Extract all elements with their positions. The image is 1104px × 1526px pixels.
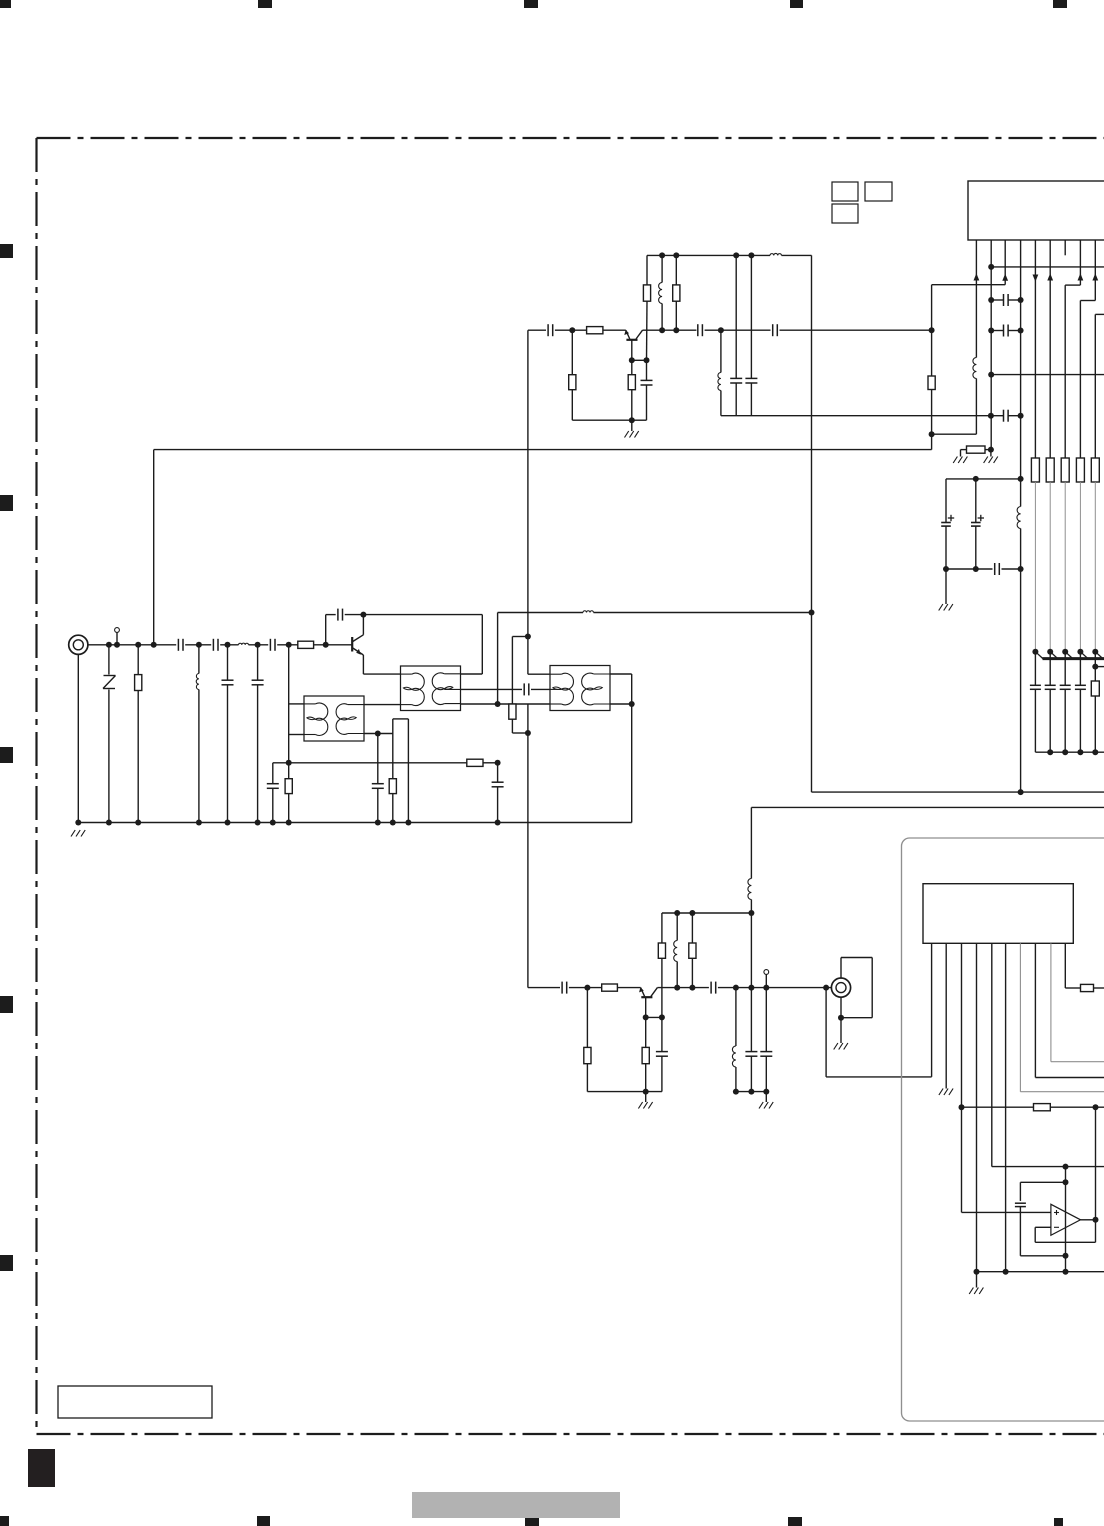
node: [405, 820, 411, 826]
node: [1063, 1253, 1069, 1259]
dash-dot page border left: [35, 138, 37, 1434]
wire cap return: [1035, 751, 1104, 753]
capacitor C18: [1003, 325, 1005, 337]
wire Q2 input: [528, 329, 546, 331]
varactor/trimmer cap: [1064, 652, 1066, 686]
wire riser: [497, 613, 499, 705]
node: [1018, 566, 1024, 572]
transformer T2: [401, 666, 461, 711]
IC IC1: [968, 181, 1104, 240]
node: [959, 1104, 965, 1110]
wire varactor feed: [1079, 482, 1081, 652]
wire varactor feed: [1034, 482, 1036, 652]
wire level line: [962, 1106, 1034, 1108]
resistor R20: [602, 984, 618, 991]
resistor R12: [967, 446, 986, 453]
wire T3 secondary bottom: [610, 703, 632, 705]
wire: [1050, 1106, 1104, 1108]
node: [390, 820, 396, 826]
pin 6 wire: [1049, 240, 1051, 458]
node: [733, 1089, 739, 1095]
test point stub: [765, 975, 767, 988]
bus entry: [1035, 652, 1043, 659]
node: [659, 1014, 665, 1020]
arrow: [1078, 273, 1084, 280]
node: [1018, 328, 1024, 334]
registration mark bottom 3: [525, 1516, 539, 1526]
node test point: [114, 642, 120, 648]
resistor R17: [1076, 458, 1084, 482]
ground: [945, 569, 947, 604]
wire: [345, 614, 364, 616]
capacitor C25: [661, 1017, 663, 1051]
IC2 pin 10 wire: [1064, 943, 1066, 988]
node: [270, 820, 276, 826]
ground Q3: [645, 1092, 647, 1102]
capacitor C12: [697, 324, 699, 336]
registration mark left 4: [0, 996, 13, 1013]
wire: [569, 987, 602, 989]
pin 9 wire: [1094, 240, 1096, 301]
node: [1018, 413, 1024, 419]
wire IF to IC2: [825, 988, 827, 1077]
node: [809, 610, 815, 616]
node: [255, 642, 261, 648]
resistor R10 collector load: [646, 255, 648, 285]
wire: [646, 1016, 662, 1018]
wire T1 secondary top to T2 primary bottom: [364, 704, 401, 706]
IC IC2: [923, 884, 1073, 944]
capacitor C15 tank: [735, 255, 737, 378]
capacitor C13: [772, 324, 774, 336]
capacitor C1: [177, 639, 179, 651]
IC2 pin 6 wire: [1005, 943, 1007, 1271]
wire AGC riser: [153, 450, 155, 645]
node: [838, 1015, 844, 1021]
capacitor C14: [646, 360, 648, 380]
capacitor C2: [212, 639, 214, 651]
registration mark top 2: [258, 0, 272, 8]
title box: [58, 1386, 212, 1418]
resistor R19: [1091, 681, 1099, 696]
transistor Q3: [641, 996, 652, 998]
node: [988, 328, 994, 334]
op-amp - label: [1054, 1226, 1059, 1228]
node: [733, 985, 739, 991]
transistor Q1: [351, 637, 353, 652]
node: [135, 642, 141, 648]
node: [1092, 649, 1098, 655]
arrow: [1092, 273, 1098, 280]
resistor R5: [392, 734, 394, 779]
node: [674, 910, 680, 916]
inductor L7: [973, 358, 977, 379]
node: [106, 820, 112, 826]
node: [1047, 749, 1053, 755]
legend box 2: [865, 182, 892, 201]
capacitor C6: [272, 763, 274, 784]
wire to T3 top: [528, 673, 550, 675]
resistor R24: [691, 913, 693, 943]
resistor R7: [587, 327, 603, 334]
node: [733, 252, 739, 258]
node: [196, 820, 202, 826]
node: [674, 985, 680, 991]
wire IF out: [991, 266, 1104, 268]
wire supply drop: [811, 255, 813, 792]
node: [974, 1269, 980, 1275]
node: [495, 760, 501, 766]
resistor R21: [586, 988, 588, 1048]
wire: [314, 644, 353, 646]
node: [673, 327, 679, 333]
connector J2: [831, 978, 850, 997]
wire: [594, 612, 812, 614]
node: [196, 642, 202, 648]
wire Q2 supply rail: [647, 254, 770, 256]
node: [286, 642, 292, 648]
capacitor C24: [710, 982, 712, 994]
node: [1018, 297, 1024, 303]
wire Q2 base stub: [631, 340, 633, 361]
node: [1063, 1269, 1069, 1275]
node antenna gnd: [75, 820, 81, 826]
wire Q3 supply rail: [662, 912, 752, 914]
wire Q3 input: [528, 987, 560, 989]
resistor R9: [631, 360, 633, 374]
capacitor C16 tank: [750, 255, 752, 378]
antenna jack J1: [69, 635, 88, 654]
bus entry: [1065, 652, 1073, 659]
wire T1 primary feed: [288, 645, 290, 763]
wire collector to T2 secondary top: [363, 614, 482, 616]
ground: [960, 450, 962, 457]
wire VCC line: [812, 791, 1104, 793]
dash-dot page border top: [37, 137, 1104, 139]
node: [1003, 1269, 1009, 1275]
wire from edge: [1095, 313, 1104, 315]
registration mark left 3: [0, 747, 13, 763]
black index tab: [28, 1449, 55, 1487]
transformer T1: [304, 696, 364, 741]
pin 5 wire: [1034, 240, 1036, 458]
bus entry: [1080, 652, 1088, 659]
wire: [220, 644, 238, 646]
wire: [185, 644, 211, 646]
wire bottom return bus: [977, 1271, 1104, 1273]
wire antenna to ground bus: [77, 654, 79, 822]
wire Q3 base stub: [645, 997, 647, 1017]
node: [988, 264, 994, 270]
wire varactor feed: [1064, 482, 1066, 652]
wire cap branch: [1020, 1181, 1065, 1183]
resistor R14: [1031, 458, 1039, 482]
arrow: [1047, 273, 1053, 280]
wire AGC line to mixer: [154, 449, 932, 451]
connector box: [841, 957, 872, 959]
wire long riser lower: [527, 704, 529, 988]
wire T2-T3 coupling: [461, 688, 523, 690]
wire osc link: [932, 284, 1006, 286]
node: [225, 642, 231, 648]
stub: [512, 636, 528, 638]
node: [644, 357, 650, 363]
wire: [932, 433, 977, 435]
wire: [483, 762, 498, 764]
inductor L11: [735, 988, 737, 1046]
ground antenna: [71, 830, 75, 837]
capacitor C10: [497, 763, 499, 782]
inductor L5: [661, 255, 663, 282]
arrow: [974, 273, 980, 280]
wire: [277, 644, 298, 646]
capacitor C3: [269, 639, 271, 651]
node: [106, 642, 112, 648]
wire: [736, 1091, 766, 1093]
legend box 1: [832, 182, 858, 201]
wire T1 bottom tap: [364, 733, 393, 735]
wire: [780, 329, 932, 331]
resistor R22: [645, 1017, 647, 1047]
node: [375, 820, 381, 826]
transformer T3: [550, 666, 610, 711]
bus entry: [1095, 652, 1103, 659]
node: [748, 985, 754, 991]
ground Q2: [631, 420, 633, 431]
wire: [249, 644, 269, 646]
wire: [657, 987, 709, 989]
resistor R6: [511, 637, 513, 705]
resistor R8: [571, 330, 573, 375]
wire to T1 top: [289, 703, 304, 705]
wire: [782, 254, 812, 256]
node: [1062, 649, 1068, 655]
resistor R25: [1081, 984, 1094, 991]
IC2 pin 1 wire: [931, 943, 933, 1077]
capacitor C20 electrolytic: [945, 479, 947, 523]
surge arrester Z1: [108, 645, 110, 675]
pin 7 stub: [1064, 240, 1066, 255]
capacitor C5: [257, 645, 259, 680]
wire: [531, 688, 550, 690]
wire oscillator line: [498, 612, 583, 614]
node Q1 collector: [360, 612, 366, 618]
wire long riser upper: [527, 330, 529, 674]
node: [1092, 664, 1098, 670]
node: [929, 327, 935, 333]
node: [823, 985, 829, 991]
node: [643, 1089, 649, 1095]
wire T2 bottom link to T3: [461, 703, 551, 705]
wire: [991, 374, 1104, 376]
test point stub: [116, 633, 118, 645]
capacitor C28: [1015, 1202, 1026, 1204]
IC2 pin 9 wire (stereo): [1050, 943, 1052, 1061]
op-amp U1: [1051, 1204, 1081, 1235]
IC2 pin 8 wire: [1034, 943, 1036, 1077]
node: [748, 1089, 754, 1095]
wire op-amp output: [1081, 1219, 1096, 1221]
registration mark bottom-left: [0, 1516, 9, 1526]
varactor/trimmer cap: [1079, 652, 1081, 686]
wire: [750, 913, 752, 988]
grey footer bar: [412, 1492, 620, 1518]
capacitor C17: [1003, 294, 1005, 306]
node: [1032, 649, 1038, 655]
node: [973, 566, 979, 572]
node: [1093, 1217, 1099, 1223]
wire: [643, 329, 697, 331]
node: [988, 372, 994, 378]
resistor R23 collector load: [661, 913, 663, 943]
wire inverting input loop: [1035, 1226, 1051, 1228]
resistor R16: [1061, 458, 1069, 482]
node: [1077, 649, 1083, 655]
node: [748, 252, 754, 258]
arrow: [1033, 275, 1039, 282]
inductor L9: [676, 913, 678, 941]
bus entry: [1050, 652, 1058, 659]
resistor R3: [288, 763, 290, 779]
resistor R4: [467, 759, 483, 766]
wire main antenna line: [88, 644, 176, 646]
wire to op-amp +: [962, 1211, 1051, 1213]
capacitor C19: [1003, 410, 1005, 422]
capacitor C4: [227, 645, 229, 680]
wire: [718, 987, 831, 989]
resistor R26: [1034, 1104, 1051, 1111]
node: [629, 357, 635, 363]
wire: [1094, 652, 1096, 681]
wire jog: [1065, 284, 1080, 286]
node: [1047, 649, 1053, 655]
registration mark bottom 2: [257, 1516, 270, 1526]
wire: [946, 568, 993, 570]
wire: [572, 419, 632, 421]
wire to T1 bottom: [289, 734, 304, 736]
test point TP2: [764, 970, 769, 975]
node: [1077, 749, 1083, 755]
node: [569, 327, 575, 333]
module outline: [902, 838, 1104, 1421]
IC2 pin 3 wire: [961, 943, 963, 1212]
ground: [990, 450, 992, 457]
node: [689, 985, 695, 991]
wire supply branch: [946, 478, 1021, 480]
node: [584, 985, 590, 991]
IC2 pin 4 wire: [976, 943, 978, 1271]
node: [659, 252, 665, 258]
inductor L3: [583, 611, 594, 613]
op-amp + label: [1054, 1212, 1059, 1214]
pin 2 wire: [990, 240, 992, 450]
inductor L10 supply choke: [750, 807, 752, 878]
node: [988, 297, 994, 303]
wire tank bottom: [721, 415, 991, 417]
wire Q1 emitter to T2 primary top: [362, 655, 364, 674]
dash-dot page border bottom: [37, 1433, 1104, 1435]
node: [1063, 1179, 1069, 1185]
tuning bus: [1043, 657, 1104, 660]
wire: [617, 987, 640, 989]
wire: [555, 329, 587, 331]
node: [763, 1089, 769, 1095]
arrow: [1002, 274, 1008, 281]
resistor R13: [928, 376, 935, 390]
node: [525, 730, 531, 736]
registration mark bottom 4: [788, 1517, 802, 1526]
wire: [603, 329, 626, 331]
inductor L2: [198, 645, 200, 674]
capacitor C9: [523, 683, 525, 695]
pin 1 wire: [975, 240, 977, 358]
inductor L8: [1017, 507, 1021, 529]
node: [135, 820, 141, 826]
node: [629, 701, 635, 707]
wire varactor feed: [1049, 482, 1051, 652]
varactor/trimmer cap: [1049, 652, 1051, 686]
node: [1018, 476, 1024, 482]
IC2 pin 7 wire (mute): [1019, 943, 1021, 1091]
inductor L6 tank: [720, 330, 722, 372]
ground: [976, 1272, 978, 1288]
node: [988, 413, 994, 419]
registration mark top 4: [790, 0, 803, 8]
node: [929, 431, 935, 437]
resistor R11: [675, 255, 677, 285]
wire: [587, 1091, 645, 1093]
wire: [931, 285, 933, 450]
capacitor C26: [750, 988, 752, 1052]
IC2 pin 5 wire: [991, 943, 993, 1166]
node: [495, 701, 501, 707]
registration mark left 2: [0, 495, 13, 511]
wire T1 tap jog: [392, 719, 394, 734]
ground: [765, 1092, 767, 1102]
node: [286, 820, 292, 826]
node: [718, 327, 724, 333]
pin 3 wire: [1004, 240, 1006, 285]
wire: [705, 329, 771, 331]
registration mark top-right: [1053, 0, 1067, 8]
capacitor C27: [765, 988, 767, 1052]
resistor R18: [1091, 458, 1099, 482]
node: [689, 910, 695, 916]
node Q1 base: [323, 642, 329, 648]
legend box 3: [832, 204, 858, 223]
resistor R15: [1046, 458, 1054, 482]
node: [1092, 749, 1098, 755]
wire shield: [840, 997, 842, 1018]
wire tuning line: [273, 762, 467, 764]
pin 4 wire: [1020, 240, 1022, 507]
wire: [632, 359, 647, 361]
wire T3 secondary top: [610, 673, 632, 675]
capacitor C8: [377, 734, 379, 784]
node: [525, 634, 531, 640]
node: [1018, 789, 1024, 795]
node: [1062, 749, 1068, 755]
inductor L1: [239, 643, 249, 645]
node: [973, 476, 979, 482]
node: [286, 760, 292, 766]
node: [629, 417, 635, 423]
registration mark top-left: [0, 0, 11, 8]
node: [763, 985, 769, 991]
node: [988, 447, 994, 453]
node: [255, 820, 261, 826]
capacitor C22: [994, 563, 996, 575]
